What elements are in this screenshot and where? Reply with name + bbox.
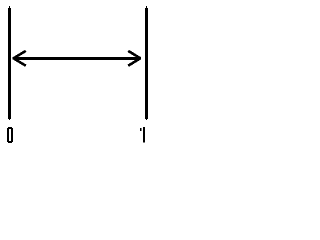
left vertical line (tick at 0) [8,6,11,120]
left arrowhead [13,51,25,66]
arrow shaft [13,57,140,60]
right arrowhead [128,51,140,66]
label 0 [7,127,13,143]
right vertical line (tick at 1) [145,6,148,120]
label 1 [140,127,145,143]
